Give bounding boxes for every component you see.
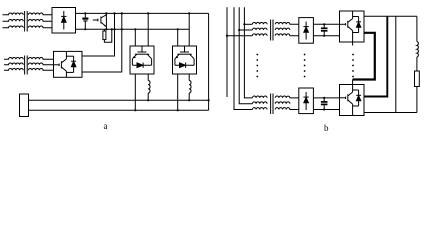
load resistor R2 <box>415 57 420 113</box>
M1 bottom-left vertical to lower bus <box>134 74 136 111</box>
feeder bus line 2 with corner lead to T4 row2 <box>239 7 252 104</box>
diode D2 inside U2 <box>66 56 76 72</box>
U3 output wires <box>313 24 339 35</box>
B2 lower output wire <box>364 112 417 114</box>
chopper IGBT Q1 <box>93 12 108 30</box>
freewheel diode D3 inside M1 <box>137 63 143 68</box>
capacitor C1 <box>82 12 88 30</box>
transformer T1 windings left <box>3 13 24 28</box>
stub into B2 top <box>352 80 354 85</box>
transformer T4 core <box>271 94 273 115</box>
H-bridge module box B2 <box>340 85 365 116</box>
smoothing inductor L1 under M1 <box>147 74 150 101</box>
M1 top-left vertical to bottom rail <box>134 28 136 46</box>
diode D1 inside U1 <box>61 11 66 30</box>
transformer T2 windings right <box>28 57 53 70</box>
IGBT Q3 inside M1 <box>132 46 151 65</box>
transformer T1 core <box>25 11 28 32</box>
IGBT Q4 inside M2 <box>175 46 194 65</box>
transformer T1 windings right <box>28 13 52 28</box>
track electrode rectangle <box>20 94 29 117</box>
thin riser from B2 lower wire <box>395 16 397 112</box>
load inductor L3 <box>417 42 418 57</box>
freewheel diode D6 inside B1 <box>353 17 361 33</box>
feeder bus line 1 with corner lead to T4 row1 <box>244 7 252 98</box>
U4 output wires <box>313 98 339 110</box>
svg-text:a: a <box>104 121 108 131</box>
svg-text:b: b <box>324 123 329 133</box>
DC rail top <box>76 12 209 14</box>
B1 top output wire to load <box>364 15 417 17</box>
transformer T4 windings left <box>252 96 267 109</box>
freewheel diode D7 inside B2 <box>353 90 361 106</box>
upper bus wire <box>29 99 209 101</box>
IGBT Q6 inside B2 <box>340 85 353 116</box>
4-quadrant converter box U2 <box>54 51 83 77</box>
transformer T3 leads left <box>226 23 253 37</box>
rectifier box U1 <box>52 8 76 34</box>
rectifier box U4 <box>299 88 314 114</box>
inverter module box M1 <box>130 46 154 74</box>
rectifier box U3 <box>299 18 314 44</box>
thick series link from B1 lower terminal <box>353 33 375 80</box>
H-bridge module box B1 <box>340 11 365 42</box>
U2 output wire lower to top rail <box>82 12 123 72</box>
transformer T2 windings left <box>4 57 23 70</box>
transformer T2 core <box>25 56 28 75</box>
transformer T3 windings left <box>252 22 267 35</box>
ellipsis dots column 3 <box>352 54 354 78</box>
diode D5 inside U3 <box>303 22 308 40</box>
smoothing inductor L2 under M2 <box>188 74 191 101</box>
inverter module box M2 <box>173 46 197 74</box>
U2 output wire upper to top rail <box>82 12 116 56</box>
capacitor C2 <box>321 23 328 37</box>
M2 bottom-left vertical to lower bus <box>177 74 179 111</box>
feeder bus line 0 <box>226 7 228 97</box>
DC rail bottom <box>76 28 190 30</box>
thick riser from B2 upper terminal to top wire <box>364 16 387 96</box>
freewheel diode D4 inside M2 <box>180 63 186 68</box>
brake resistor R1 <box>103 28 113 42</box>
M2 top-left vertical to bottom rail end <box>177 29 179 46</box>
capacitor C3 <box>321 97 328 111</box>
ellipsis dots column 2 <box>304 54 306 78</box>
M1 top-right vertical to top rail <box>147 12 149 46</box>
diode D8 inside U4 <box>303 92 308 110</box>
B1 bottom stub <box>352 42 354 46</box>
right side return conductor <box>208 13 210 110</box>
transformer T4 windings right <box>275 96 299 109</box>
ellipsis dots column 1 <box>256 54 258 78</box>
lower bus wire <box>29 109 209 111</box>
feeder bus line 3 with corner lead to T4 row3 <box>234 7 252 109</box>
transformer T3 windings right <box>275 22 299 35</box>
IGBT Q2 inside U2 <box>54 51 67 77</box>
M2 top-right vertical to top rail <box>188 12 190 46</box>
load wire right top <box>416 16 418 41</box>
IGBT Q5 inside B1 <box>340 11 353 42</box>
transformer T3 core <box>271 20 273 41</box>
